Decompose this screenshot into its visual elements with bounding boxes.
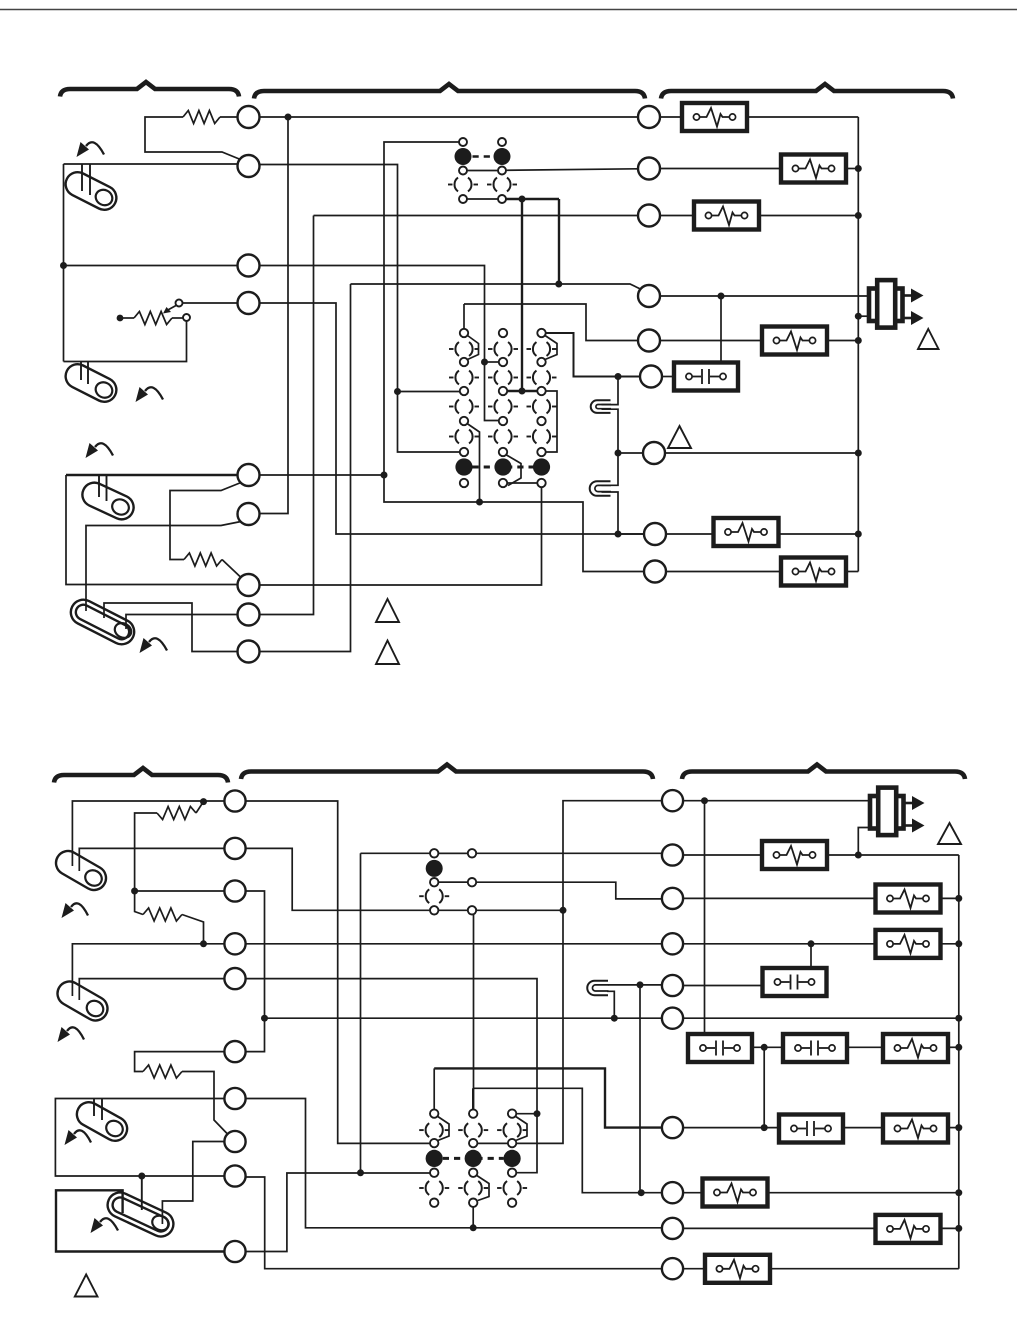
- wire L5 node down to R9 row: [384, 475, 645, 572]
- load box LB4: [762, 327, 827, 355]
- wire R1 to load box LB1: [660, 116, 683, 118]
- load box LB11b: [703, 1179, 768, 1207]
- socket J1: [591, 400, 611, 413]
- wire K4 row3 link: [438, 909, 467, 911]
- junction dot bus-LB4: [855, 337, 862, 344]
- wire R6 to contactor box LB5: [662, 376, 675, 378]
- junction dot N1 bus: [701, 797, 708, 804]
- wire M5 right to contact column: [246, 979, 537, 1173]
- potentiometer P1 wiper terminal: [176, 300, 183, 307]
- wire L8 right riser: [260, 216, 314, 615]
- wire R7 left: [618, 452, 644, 454]
- socket J1b: [587, 981, 608, 996]
- contact K2 column 1 dashed y349: [455, 340, 472, 357]
- wire N4 to load box LB4b: [683, 943, 876, 945]
- terminal L8: [238, 604, 260, 626]
- wire N5 riser down to N8: [639, 985, 641, 1193]
- wire S1b electrode 2 from M2: [79, 848, 225, 871]
- wire P1 to S2: [64, 321, 187, 362]
- wire N5 to contactor box LB5b: [683, 985, 763, 987]
- terminal N5: [662, 975, 683, 996]
- wire LB6 to bus: [777, 533, 858, 535]
- wire L5 blade with resistor R2: [170, 483, 241, 560]
- wire heat relay row1 to N2: [361, 852, 662, 854]
- mercury switch S4: [67, 595, 139, 648]
- wire N5 node to circle: [640, 984, 662, 986]
- junction dot K2-2 branch: [481, 359, 488, 366]
- junction dot bus-T1: [855, 313, 862, 320]
- wire M7 to M9 left riser: [55, 1099, 225, 1177]
- terminal L5: [238, 464, 260, 486]
- contact K2 column 2 small y483: [499, 479, 507, 487]
- terminal M3: [224, 880, 245, 901]
- wire riser x384 to relay K1 top: [384, 142, 459, 475]
- wire left riser x64: [63, 164, 65, 362]
- junction dot N4 branch: [808, 940, 815, 947]
- wire J1b exit down: [607, 991, 614, 1018]
- wire M10 left loop to S4b: [56, 1190, 225, 1251]
- contact K2 column 2 dashed y436: [494, 428, 511, 445]
- overbrace middle group (bottom): [241, 765, 653, 780]
- wire K3 col2 bottom stem: [472, 1207, 474, 1228]
- blade K2-c1 rows1-2: [468, 336, 479, 360]
- contact K2 column 1 small y483: [460, 479, 468, 487]
- contact K2 column 1 dashed y436: [455, 428, 472, 445]
- terminal M2: [224, 838, 245, 859]
- terminal L9: [238, 641, 260, 663]
- junction dot bus-LB6: [855, 531, 862, 538]
- wire N7 row to bus: [947, 1127, 959, 1129]
- bus x704 down to contactor row: [704, 801, 706, 1035]
- power connector T1: [869, 289, 903, 322]
- wire bus stub to T1: [858, 315, 869, 317]
- power connector T2: [870, 796, 904, 829]
- junction dot bus-N9: [955, 1225, 962, 1232]
- contact K3 column 1 dashed y1188: [426, 1179, 443, 1196]
- rotation arrow S2: [145, 387, 163, 399]
- junction dot bus-LB2: [855, 165, 862, 172]
- terminal M6: [224, 1041, 245, 1062]
- contact K2 column 1 small y421: [460, 417, 468, 425]
- junction dot L5 node: [381, 472, 388, 479]
- contact K3 column 2 small y1143: [469, 1139, 477, 1147]
- wire heat relay row3 to N1 riser: [476, 909, 563, 911]
- wire K3 col1 stem feed: [433, 1068, 435, 1109]
- contact K3 column 2 small y1172: [469, 1169, 477, 1177]
- contactor box LB7b: [783, 1034, 847, 1062]
- blade K3-c2 rows5-7: [477, 1176, 489, 1201]
- wire M1 to S1b: [72, 801, 224, 866]
- wire K4 row2 link: [438, 881, 467, 883]
- terminal M8: [224, 1131, 245, 1152]
- contact K2 column 2 small y421: [499, 417, 507, 425]
- contact K2 column 3 small y333: [537, 329, 545, 337]
- contact K1 column 1 small bottom: [459, 195, 467, 203]
- junction dot K1 bottom: [519, 196, 526, 203]
- wire resistor R1 left lead to L2: [145, 117, 241, 160]
- junction dot socket J2b node: [611, 1015, 618, 1022]
- wire M5 to S2b: [79, 979, 225, 1000]
- wire M8 to S4b: [162, 1142, 225, 1225]
- wire R7 right to bus: [665, 452, 858, 454]
- mercury switch S1: [61, 168, 120, 214]
- terminal L2: [238, 155, 260, 177]
- contact K2 column 3 small y362: [537, 358, 545, 366]
- junction dot contactor row node: [761, 1044, 768, 1051]
- wire N6 row: [265, 1017, 663, 1019]
- wire M7 right to N9: [246, 1099, 662, 1228]
- wire N2 to load box LB2b: [683, 854, 763, 856]
- note triangle 4: [918, 329, 939, 349]
- contact K2 column 3 small y391: [537, 387, 545, 395]
- load box LB4b: [876, 930, 941, 958]
- terminal M1: [224, 790, 245, 811]
- wire M1 right riser: [246, 801, 430, 1143]
- wire R1 heater resistor to L1/L2: [220, 116, 237, 118]
- wire N10 right to box: [684, 1268, 706, 1270]
- wire M2 right to heat relay row3: [246, 848, 430, 910]
- contact K1 column 1 small top: [459, 138, 467, 146]
- terminal M10: [224, 1241, 245, 1262]
- junction dot M1 resistor node: [200, 798, 207, 805]
- wire LB1 to bus: [746, 116, 858, 118]
- contact K2 column 3 dashed y377: [533, 369, 550, 386]
- junction dot M3 node: [131, 888, 138, 895]
- junction dot bus-N7: [955, 1124, 962, 1131]
- junction dot K3 col3 top: [534, 1110, 541, 1117]
- wire R2 to load box LB2: [660, 168, 782, 170]
- wire L5 to contact column riser: [260, 474, 384, 476]
- contact K4 aux small top: [468, 849, 476, 857]
- contact K2 column 3 small y483: [537, 479, 545, 487]
- terminal N3: [662, 888, 683, 909]
- wire node A down to L6: [260, 117, 288, 514]
- junction dot N7 node: [761, 1124, 768, 1131]
- mercury switch S1b: [52, 847, 111, 895]
- wire box row to bus: [947, 1046, 959, 1048]
- contact K1 column 1 small mid: [459, 167, 467, 175]
- wire K3 col2 stem: [472, 1088, 474, 1109]
- wire N1 riser: [477, 801, 662, 1144]
- resistor R3b: [143, 1065, 182, 1078]
- wire N5 socket chain: [608, 984, 640, 986]
- wire relay K1 bottom thick link: [507, 198, 560, 200]
- wire K3 col3 top link: [516, 1113, 537, 1115]
- contact K3 column 2 closed y1158: [465, 1150, 482, 1167]
- wire contactor row boxes: [750, 1046, 784, 1048]
- wire heat relay row1 riser: [360, 853, 362, 1173]
- terminal M5: [224, 968, 245, 989]
- contact K1 column 2 small top: [498, 138, 506, 146]
- rotation arrow S1: [86, 142, 104, 154]
- contact K2 column 2 closed y467: [494, 458, 511, 475]
- terminal R7: [643, 442, 665, 464]
- rotation arrow S4b: [100, 1218, 118, 1230]
- wire K4 row1 link: [438, 852, 467, 854]
- wire L9 to R4 riser: [260, 284, 351, 652]
- potentiometer P1 right lead: [172, 317, 183, 319]
- wire L6 blade to S4: [86, 522, 241, 612]
- terminal N8: [662, 1182, 683, 1203]
- mercury switch S3b: [73, 1098, 132, 1145]
- junction dot N8 node: [638, 1189, 645, 1196]
- wire S3b electrode 2: [101, 1099, 103, 1121]
- wire contactor row node down: [763, 1047, 765, 1127]
- contact K2 column 2 dashed y406: [494, 398, 511, 415]
- terminal N2: [662, 844, 683, 865]
- contact K2 column 3 dashed y349: [533, 340, 550, 357]
- rotation arrow S3b: [74, 1130, 91, 1142]
- terminal R5: [638, 330, 660, 352]
- wire L2 to contact K1-3/K1-5: [260, 165, 460, 453]
- potentiometer P1 left dot: [117, 315, 124, 322]
- contact K2 column 1 small y452: [460, 448, 468, 456]
- note triangle 1: [376, 599, 399, 622]
- wire S3 electrode 1: [98, 475, 100, 497]
- wire S3 electrode 2: [106, 475, 108, 501]
- load box LB13b: [705, 1255, 770, 1283]
- wire R4 branch to contactor box: [720, 296, 722, 372]
- contact K3 column 3 dashed y1130: [503, 1122, 520, 1139]
- wire M9 right to N10: [246, 1177, 663, 1269]
- wire P1 wiper to L4: [183, 302, 238, 304]
- wire R9 to load box LB7: [666, 571, 782, 573]
- junction dot K3 col2 bottom node: [470, 1224, 477, 1231]
- wire LB7 to bus corner: [845, 571, 858, 573]
- contactor box LB9b: [779, 1115, 843, 1143]
- bus x618 J1 exit: [602, 409, 619, 453]
- K3 mechanical link: [443, 1157, 504, 1160]
- bus x618 R6-R7: [602, 377, 619, 405]
- note triangle 3: [668, 426, 691, 448]
- K2 mechanical link: [473, 466, 534, 469]
- wire N9 right to box: [684, 1227, 876, 1229]
- junction dot N5 node: [637, 981, 644, 988]
- blade K3-c3 rows1-2: [516, 1117, 527, 1141]
- load box LB7: [781, 558, 846, 586]
- junction dot K1-3 branch: [394, 388, 401, 395]
- contact K3 column 2 dashed y1188: [465, 1179, 482, 1196]
- contact K2 column 1 closed y467: [455, 458, 472, 475]
- contact K2 column 2 dashed y377: [494, 369, 511, 386]
- junction dot node A: [285, 114, 292, 121]
- wire branch to contact K2-2: [485, 361, 499, 363]
- wire R4 right to transformer T1: [660, 295, 869, 297]
- junction dot row5 node: [357, 1169, 364, 1176]
- wire R4 row left: [351, 284, 642, 290]
- contact K4 aux small bottom: [468, 906, 476, 914]
- terminal L3: [238, 255, 260, 277]
- junction dot L3 node: [60, 262, 67, 269]
- terminal M7: [224, 1088, 245, 1109]
- junction dot bus-N4: [955, 940, 962, 947]
- contact K3 column 2 small y1113: [469, 1109, 477, 1117]
- terminal M4: [224, 933, 245, 954]
- mercury switch S2b: [53, 977, 112, 1025]
- terminal N7: [662, 1117, 683, 1138]
- junction dot M4 node: [200, 940, 207, 947]
- resistor R1: [183, 111, 220, 124]
- mercury switch S4b: [103, 1188, 177, 1240]
- junction dot N1 riser node: [560, 907, 567, 914]
- wire W2 chain to N8: [474, 915, 663, 1193]
- contact K2 column 2 dashed y349: [494, 340, 511, 357]
- terminal R6: [640, 366, 662, 388]
- contact K2 column 3 dashed y436: [533, 428, 550, 445]
- wire branch to contact K1-3: [398, 391, 460, 393]
- note triangle 5: [938, 823, 961, 844]
- wire K2 bottom row link: [507, 482, 537, 484]
- wire heat relay row2 to N3: [439, 882, 662, 899]
- wire L7 to contact K2 bottom: [260, 487, 542, 585]
- wire box row link 2: [845, 1046, 884, 1048]
- terminal N1: [662, 790, 683, 811]
- wire N7 right: [684, 1127, 780, 1129]
- bus x858 right side: [857, 117, 859, 572]
- junction dot bus-N6: [955, 1015, 962, 1022]
- contact K3 column 1 closed y1158: [426, 1150, 443, 1167]
- wire S3b electrode 1: [93, 1099, 95, 1117]
- junction dot bus-N8: [955, 1189, 962, 1196]
- contact K2 column 1 small y333: [460, 329, 468, 337]
- contact K2 column 1 small y391: [460, 387, 468, 395]
- contact K2 column 2 small y391: [499, 387, 507, 395]
- terminal M9: [224, 1165, 245, 1186]
- wire M3 right riser: [246, 891, 265, 1052]
- contact K3 column 2 dashed y1130: [465, 1122, 482, 1139]
- wire LB4b to bus: [939, 943, 959, 945]
- contactor box LB5b: [763, 968, 827, 996]
- blade K3-c1 rows1-2: [438, 1117, 449, 1141]
- contact K2 column 2 small y333: [499, 329, 507, 337]
- wire fan chain to N7: [434, 1068, 663, 1127]
- junction dot bus-R7: [855, 450, 862, 457]
- wire K1 to R2 terminal: [506, 169, 639, 171]
- load box LB6: [714, 518, 779, 546]
- wire L8 to mercury switch S4: [126, 615, 238, 630]
- wire contact K2-c1 top feed: [463, 304, 465, 329]
- wire LB3 to bus: [758, 215, 858, 217]
- blade K2-c1 row4 to node: [468, 424, 480, 502]
- wire N9 box to bus: [939, 1227, 959, 1229]
- rotation arrow S1b: [71, 903, 88, 915]
- wire L3 left: [64, 265, 238, 267]
- contact K2 column 3 small y421: [537, 417, 545, 425]
- terminal N10: [662, 1258, 683, 1279]
- terminal N9: [662, 1218, 683, 1239]
- contactor box LB5: [674, 363, 738, 391]
- contact K1 column 2 small mid: [498, 167, 506, 175]
- contact K2 column 2 small y452: [499, 448, 507, 456]
- junction dot bus-N3: [955, 895, 962, 902]
- wire S1 electrode 1: [81, 164, 83, 191]
- junction dot R6 node: [615, 373, 622, 380]
- load box LB2b: [762, 841, 827, 869]
- junction dot N6 branch: [261, 1015, 268, 1022]
- contact K3 column 2 small y1202: [469, 1199, 477, 1207]
- socket J2: [590, 481, 611, 496]
- wire M3 left: [135, 890, 225, 892]
- wire K1 bottom to K2 row3: [521, 199, 523, 391]
- junction dot blade node: [476, 499, 483, 506]
- right bus (bottom): [958, 855, 960, 1269]
- wire R3 to load box LB3: [660, 215, 695, 217]
- contact K3 column 3 small y1143: [508, 1139, 516, 1147]
- junction dot R4 node: [555, 281, 562, 288]
- terminal R4: [638, 285, 660, 307]
- junction dot R7 node: [615, 450, 622, 457]
- contact K3 column 1 small y1143: [430, 1139, 438, 1147]
- wire S4b middle electrode: [141, 1176, 143, 1210]
- wire L1 to R1 row: [259, 116, 639, 118]
- contact K2 column 1 dashed y377: [455, 369, 472, 386]
- contact K2 column 3 small y452: [537, 448, 545, 456]
- wire K2 row3 link: [507, 390, 537, 392]
- junction dot T2 node: [855, 852, 862, 859]
- contact K3 column 3 closed y1158: [503, 1150, 520, 1167]
- overbrace right group (bottom): [682, 765, 965, 780]
- note triangle 6: [75, 1274, 98, 1296]
- overbrace middle group (top): [254, 84, 645, 99]
- wire K1 bottom link: [467, 198, 498, 200]
- wire N8 right: [684, 1192, 703, 1194]
- contact K4 small bottom: [430, 906, 438, 914]
- wire R2 lead to L7: [222, 560, 241, 578]
- wire M4 right to N4: [246, 943, 662, 945]
- wire N7 boxes link: [841, 1127, 884, 1129]
- wire left riser to L7: [66, 475, 238, 585]
- junction dot K2 row3: [519, 388, 526, 395]
- junction dot bus contactor row: [955, 1044, 962, 1051]
- wire S1 electrode 2: [89, 164, 91, 195]
- wire N8 box to bus: [765, 1192, 959, 1194]
- terminal L6: [238, 503, 260, 525]
- wire R3b lead to M8: [182, 1072, 228, 1135]
- resistor R1b chain: [196, 802, 204, 813]
- wire N1 to T2: [683, 800, 870, 802]
- contact K3 column 1 small y1172: [430, 1169, 438, 1177]
- blade K2-c2 row5-bottom: [507, 455, 522, 486]
- note triangle 2: [376, 641, 399, 665]
- overbrace right group (top): [661, 84, 953, 99]
- contact K3 column 3 dashed y1188: [503, 1179, 520, 1196]
- bus x618 J2 exit: [602, 492, 619, 534]
- wire L9 to S4 electrode: [104, 603, 238, 652]
- wire LB2 to bus: [845, 168, 858, 170]
- contactor box LB6b: [688, 1034, 752, 1062]
- resistor R2: [184, 553, 222, 566]
- contact K3 column 3 small y1202: [508, 1199, 516, 1207]
- wire L2 to mercury switch S1: [64, 163, 239, 165]
- terminal R3: [638, 205, 660, 227]
- mercury switch S2: [61, 360, 120, 406]
- potentiometer P1 wiper arrow: [166, 306, 176, 312]
- load box LB10b: [883, 1115, 948, 1143]
- junction dot bus-LB3: [855, 212, 862, 219]
- contact K3 column 1 small y1113: [430, 1109, 438, 1117]
- wire K1 mid link: [467, 170, 498, 172]
- wire R8 left: [618, 533, 645, 535]
- terminal N4: [662, 933, 683, 954]
- contact K2 column 1 small y362: [460, 358, 468, 366]
- rotation arrow S4: [149, 638, 167, 650]
- wire K2 top row to R5: [464, 304, 639, 341]
- contact K3 column 1 small y1202: [430, 1199, 438, 1207]
- contact K3 column 3 small y1172: [508, 1169, 516, 1177]
- page top rule: [0, 9, 1017, 11]
- wire S2 electrode 2: [87, 362, 89, 385]
- wire M6 to resistor R3b: [135, 1052, 225, 1072]
